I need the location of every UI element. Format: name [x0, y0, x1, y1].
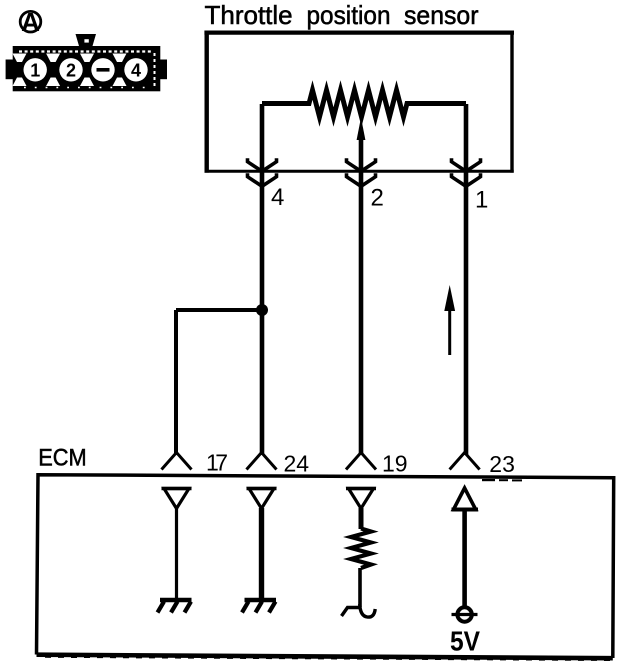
svg-text:4: 4: [271, 184, 284, 211]
svg-text:1: 1: [475, 187, 488, 214]
svg-text:position: position: [307, 0, 391, 30]
svg-text:2: 2: [66, 60, 76, 80]
svg-text:5V: 5V: [450, 626, 480, 657]
svg-text:24: 24: [284, 451, 310, 477]
svg-text:A: A: [21, 7, 40, 37]
svg-text:23: 23: [489, 451, 515, 477]
svg-text:2: 2: [371, 185, 384, 212]
svg-text:ECM: ECM: [38, 445, 86, 472]
svg-text:17: 17: [206, 450, 228, 476]
svg-text:1: 1: [30, 60, 40, 80]
svg-text:Throttle: Throttle: [205, 0, 293, 30]
svg-text:sensor: sensor: [404, 0, 479, 30]
svg-text:4: 4: [131, 60, 141, 80]
svg-text:19: 19: [382, 451, 408, 477]
